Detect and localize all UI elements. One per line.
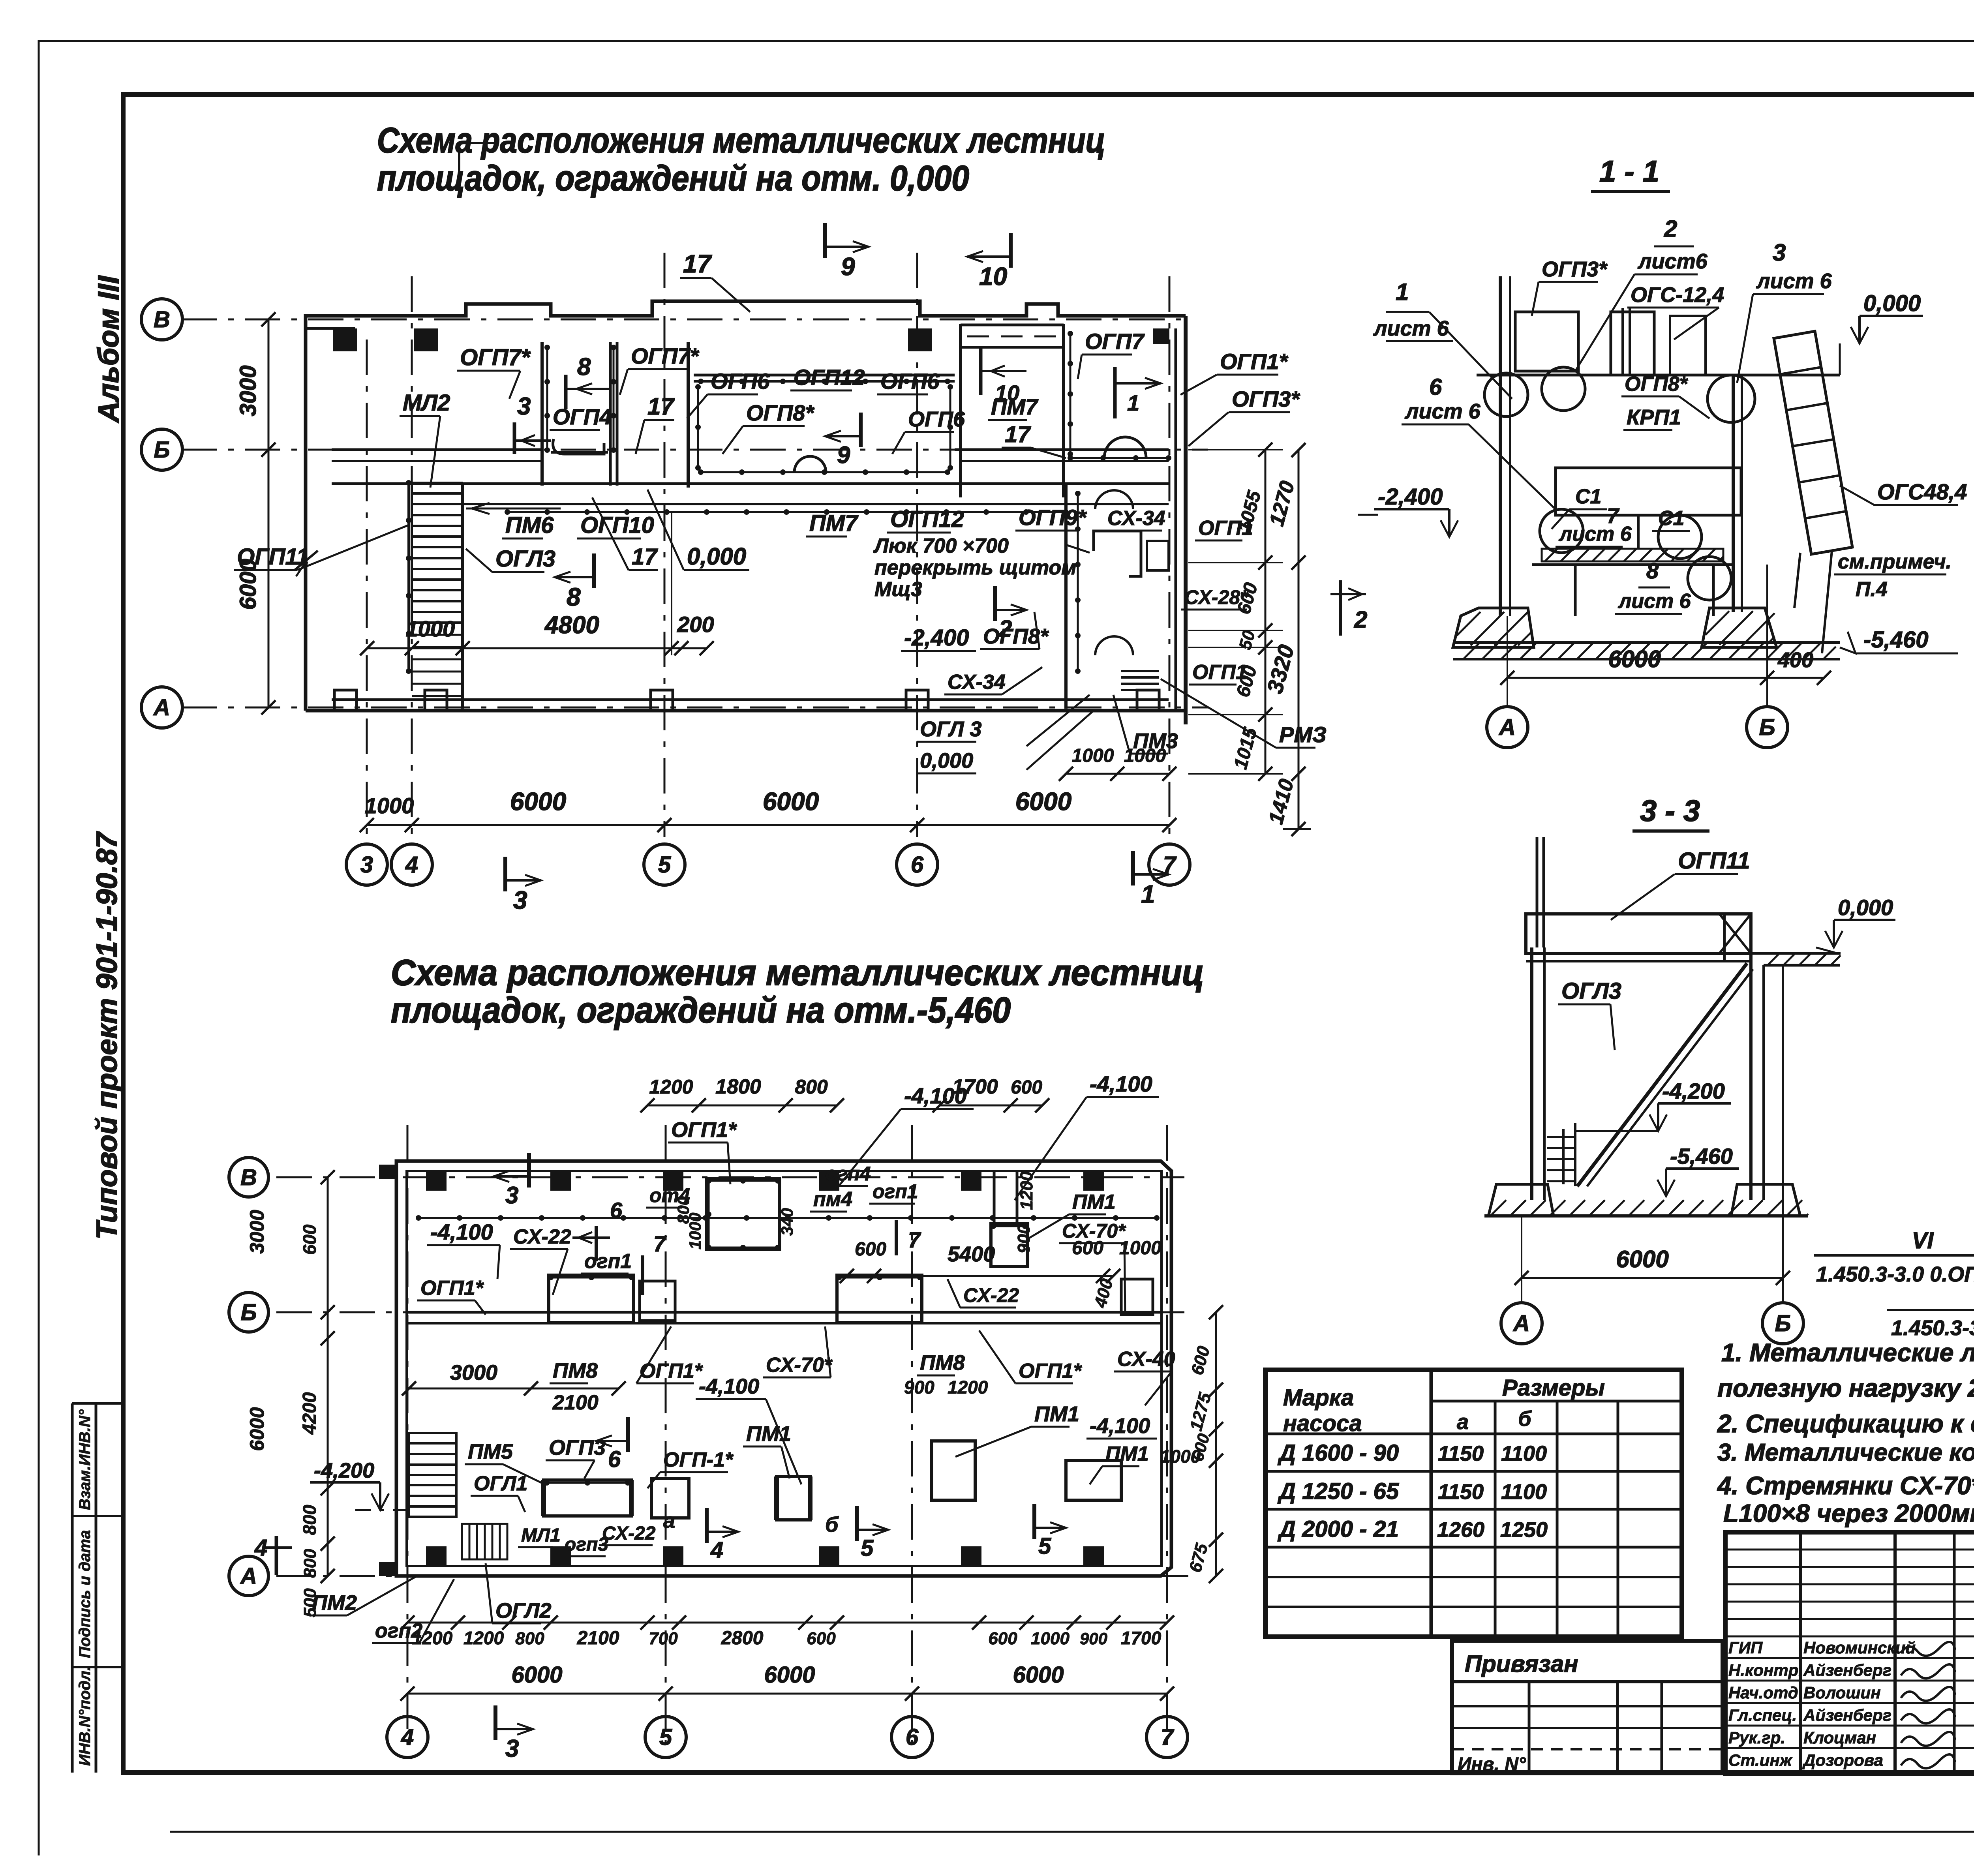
svg-text:КРП1: КРП1 (1627, 405, 1681, 429)
svg-text:Альбом III: Альбом III (92, 275, 125, 423)
svg-text:5: 5 (658, 852, 671, 878)
bottom plan dim 5400 chain (847, 1275, 1113, 1277)
svg-text:Клоцман: Клоцман (1803, 1728, 1876, 1747)
svg-text:-2,400: -2,400 (904, 625, 969, 651)
top plan partition x=2700 lower (1064, 484, 1068, 709)
section mark 1 bottom (1131, 851, 1135, 885)
svg-text:Размеры: Размеры (1502, 1375, 1605, 1401)
svg-text:огп1: огп1 (873, 1180, 918, 1203)
top plan room ПМ7 walls (959, 324, 962, 497)
title block main frame (1725, 1532, 1974, 1773)
bottom plan outline (396, 1161, 1171, 1576)
svg-text:-5,460: -5,460 (1863, 627, 1928, 653)
svg-text:2800: 2800 (721, 1628, 764, 1649)
svg-text:б: б (1518, 1407, 1532, 1431)
svg-text:-4,100: -4,100 (904, 1083, 967, 1108)
svg-text:ОГП11: ОГП11 (237, 544, 309, 570)
top plan dim 1000-4800-200 line (367, 647, 707, 649)
top plan wall break mark left (294, 551, 318, 570)
svg-text:1000: 1000 (1072, 745, 1114, 766)
svg-text:2100: 2100 (577, 1628, 619, 1649)
section 3-3 right wall (1749, 953, 1753, 1200)
bottom plan dim top chain b (940, 1105, 1042, 1107)
svg-text:ОГП7*: ОГП7* (460, 345, 531, 370)
top plan bottom small dims 1000 1000 (1066, 773, 1169, 775)
svg-text:17: 17 (647, 393, 675, 420)
svg-text:б: б (825, 1513, 839, 1536)
bottom plan grid col 7 (1166, 1125, 1168, 1745)
title block left verticals (1799, 1532, 1802, 1773)
section 3-3 stair rail small (1562, 1129, 1565, 1184)
svg-text:ОГП1: ОГП1 (1198, 517, 1253, 540)
top plan right room arc door 2 (1095, 490, 1133, 509)
section flag 1 in right room (1113, 367, 1117, 418)
bottom plan platform ПМ1 mid (777, 1476, 810, 1520)
svg-text:ОГП10: ОГП10 (580, 512, 654, 538)
svg-text:900: 900 (1080, 1629, 1107, 1648)
svg-text:6: 6 (906, 1724, 919, 1750)
svg-text:ПМ6: ПМ6 (505, 512, 554, 538)
section mark 3 bottom of bottom plan (493, 1705, 497, 1740)
bottom plan grid row А (276, 1575, 1188, 1577)
svg-text:насоса: насоса (1283, 1411, 1362, 1436)
section 1-1 detail circles (1484, 373, 1528, 416)
svg-text:6000: 6000 (246, 1407, 268, 1451)
svg-text:200: 200 (677, 612, 714, 637)
svg-text:лист 6: лист 6 (1756, 269, 1832, 293)
svg-text:600: 600 (299, 1224, 320, 1255)
section mark 2 plan (993, 586, 997, 621)
svg-text:СХ-70*: СХ-70* (766, 1354, 833, 1377)
section 1-1 posts under platform (1574, 565, 1577, 616)
bottom plan grid col 6 (911, 1125, 913, 1745)
svg-text:СХ-34: СХ-34 (948, 671, 1006, 694)
svg-text:700: 700 (649, 1629, 678, 1648)
svg-text:В: В (154, 307, 170, 332)
svg-text:1000: 1000 (686, 1213, 704, 1249)
section 3-3 top beam (1526, 914, 1751, 953)
svg-text:1700: 1700 (1121, 1628, 1162, 1648)
svg-text:1100: 1100 (1501, 1480, 1547, 1504)
svg-text:6000: 6000 (1608, 646, 1661, 672)
svg-text:-4,100: -4,100 (430, 1219, 493, 1244)
svg-text:4: 4 (401, 1724, 414, 1750)
pump table verticals (1430, 1370, 1433, 1637)
svg-text:1200: 1200 (412, 1628, 453, 1648)
svg-text:Привязан: Привязан (1465, 1651, 1578, 1677)
title block привязан box (1452, 1641, 1723, 1773)
svg-text:1200: 1200 (948, 1377, 988, 1398)
bottom plan platform ПМ4 area (707, 1178, 780, 1249)
svg-text:ОГП7: ОГП7 (1085, 329, 1145, 354)
section 1-1 beam КРП1 (1556, 468, 1741, 515)
section 3-3 foundation right (1731, 1184, 1800, 1216)
svg-text:500: 500 (300, 1588, 320, 1617)
section 3-3 ground hatch (1484, 1214, 1808, 1218)
svg-text:4200: 4200 (299, 1392, 320, 1435)
svg-text:7: 7 (908, 1227, 921, 1252)
svg-text:7: 7 (653, 1231, 667, 1256)
section mark 4 left (275, 1536, 278, 1575)
svg-text:1000: 1000 (1119, 1238, 1162, 1259)
bottom plan platform ПМ8-2 (837, 1275, 922, 1323)
svg-text:5: 5 (1038, 1533, 1051, 1559)
svg-text:3. Металлические конструкции: 3. Металлические конструкции со знаком*о… (1717, 1439, 1974, 1466)
section 3-3 right floor stub (1764, 964, 1840, 967)
pump table frame (1265, 1370, 1682, 1637)
section 3-3 small steps (1547, 1136, 1575, 1138)
bottom plan dim 3000 row (409, 1388, 619, 1390)
top plan right dim chain outer (1298, 450, 1300, 829)
svg-text:Подпись и дата: Подпись и дата (76, 1530, 94, 1658)
svg-text:600: 600 (988, 1629, 1017, 1648)
svg-text:ПМ8: ПМ8 (553, 1359, 598, 1383)
top plan second shaft right wall (687, 342, 690, 488)
section 3-3 left wall (1530, 947, 1533, 1200)
svg-text:А: А (1498, 715, 1516, 740)
svg-text:VI: VI (1912, 1228, 1935, 1253)
top plan outer wall top (306, 301, 1186, 328)
svg-text:Дозорова: Дозорова (1802, 1751, 1883, 1769)
svg-text:3: 3 (517, 393, 531, 420)
svg-text:ОГП6: ОГП6 (711, 369, 770, 394)
top plan grid row А (182, 707, 1208, 709)
svg-text:1200: 1200 (1017, 1171, 1036, 1210)
svg-text:Инв. N°: Инв. N° (1458, 1754, 1526, 1775)
svg-text:400: 400 (1777, 648, 1813, 672)
svg-text:10: 10 (979, 262, 1007, 291)
svg-text:Гл.спец.: Гл.спец. (1728, 1706, 1797, 1724)
svg-text:ОГП1*: ОГП1* (1019, 1360, 1083, 1383)
svg-text:ОГП7*: ОГП7* (631, 343, 699, 368)
section 1-1 left wall (1499, 276, 1502, 616)
svg-text:Б: Б (240, 1300, 257, 1325)
svg-text:17: 17 (683, 250, 713, 278)
top plan grid row Б (182, 449, 1208, 451)
top plan shaft room right wall (609, 342, 612, 486)
svg-text:6000: 6000 (1013, 1662, 1064, 1688)
top plan railing with dots below Б (507, 511, 1066, 513)
svg-text:ПМ7: ПМ7 (991, 394, 1039, 419)
top plan grid col 6 (916, 253, 918, 837)
section 1-1 bubble Б (1747, 707, 1788, 748)
svg-text:СХ-28*: СХ-28* (1184, 586, 1249, 608)
svg-text:8: 8 (577, 353, 591, 381)
svg-text:пм4: пм4 (813, 1188, 852, 1211)
bottom plan right dim chain (1215, 1312, 1217, 1576)
svg-text:17: 17 (1005, 422, 1031, 447)
left margin column lines (71, 1403, 74, 1773)
bottom plan wall band Б (407, 1311, 1162, 1314)
svg-text:ОГП12: ОГП12 (794, 365, 865, 390)
svg-text:ОГЛ2: ОГЛ2 (495, 1599, 552, 1623)
svg-text:Б: Б (154, 437, 170, 463)
svg-text:6000: 6000 (510, 787, 566, 816)
top plan shaft room left wall (540, 342, 544, 486)
title block signatures (1901, 1642, 1955, 1656)
top plan shaft bowl ОГП4 platform (553, 439, 604, 454)
svg-text:Д 1600 - 90: Д 1600 - 90 (1277, 1440, 1399, 1466)
svg-text:-2,400: -2,400 (1378, 484, 1443, 510)
svg-text:6000: 6000 (511, 1662, 562, 1688)
svg-text:-4,200: -4,200 (314, 1459, 374, 1482)
svg-text:см.примеч.: см.примеч. (1838, 550, 1951, 573)
top plan grid col 7 (1169, 276, 1171, 837)
svg-text:2. Спецификацию к схемам и сеч: 2. Спецификацию к схемам и сечения 5-5; … (1717, 1409, 1974, 1438)
section flag 10 in ПМ7 room (979, 347, 983, 395)
svg-text:ПМ1: ПМ1 (1105, 1443, 1149, 1465)
top plan left dim 3000 6000 (268, 319, 270, 707)
section mark 9 top (823, 223, 827, 258)
svg-text:ОГП9*: ОГП9* (1019, 505, 1087, 530)
bottom plan platform mid a (651, 1478, 689, 1518)
svg-text:В: В (240, 1165, 257, 1190)
title block left thin rows (1725, 1549, 1974, 1551)
section 1-1 bubble А (1487, 707, 1528, 748)
svg-text:ОГП1*: ОГП1* (1220, 349, 1288, 374)
svg-text:3000: 3000 (246, 1210, 268, 1253)
svg-text:0,000: 0,000 (1838, 895, 1893, 920)
svg-text:6: 6 (608, 1446, 621, 1472)
top plan grid col 3 (366, 340, 368, 837)
svg-text:площадок, ограждений на отм.: площадок, ограждений на отм.-5,460 (391, 990, 1011, 1030)
svg-text:площадок, ограждений на отм.: площадок, ограждений на отм. 0,000 (377, 159, 969, 198)
svg-text:1800: 1800 (715, 1075, 761, 1098)
svg-text:СХ-22: СХ-22 (602, 1523, 656, 1544)
top plan semicircle door at platform (794, 456, 826, 472)
svg-text:СХ-22: СХ-22 (513, 1225, 571, 1248)
svg-text:Мщ3: Мщ3 (874, 578, 922, 601)
svg-text:ПМ1: ПМ1 (1072, 1191, 1116, 1214)
section 1-1 diagonal ОГС48.4 (1774, 331, 1852, 554)
svg-text:4: 4 (405, 852, 418, 878)
svg-text:ОГЛ3: ОГЛ3 (495, 546, 555, 572)
svg-text:-4,100: -4,100 (1090, 1071, 1152, 1096)
svg-text:1000: 1000 (1160, 1446, 1201, 1467)
svg-text:900: 900 (1014, 1224, 1034, 1253)
svg-text:800: 800 (299, 1505, 320, 1535)
section mark 3 left (513, 422, 516, 454)
svg-text:6000: 6000 (1616, 1246, 1668, 1272)
bottom plan platform СХ area right (1121, 1279, 1153, 1315)
svg-text:огп1: огп1 (584, 1250, 632, 1273)
svg-text:перекрыть щитом: перекрыть щитом (874, 556, 1077, 579)
svg-text:1260: 1260 (1437, 1518, 1484, 1542)
bottom plan outline inner (407, 1171, 1162, 1566)
svg-text:Волошин: Волошин (1803, 1683, 1881, 1702)
bottom plan dim top chain a (699, 1105, 837, 1107)
svg-text:8: 8 (567, 583, 581, 611)
top plan grid row В (182, 319, 1184, 321)
top plan РМЗ hatch lines (1121, 670, 1159, 672)
svg-text:1000: 1000 (406, 616, 455, 641)
svg-text:ОГП3: ОГП3 (549, 1436, 606, 1460)
top plan wall row Б band (332, 448, 542, 451)
top plan outer wall right (1184, 316, 1188, 724)
svg-text:СХ-40: СХ-40 (1117, 1348, 1175, 1371)
svg-text:3000: 3000 (235, 365, 261, 416)
top plan stair МЛ2 flight (412, 483, 462, 623)
svg-text:900: 900 (904, 1377, 934, 1398)
svg-text:2: 2 (1664, 216, 1677, 242)
svg-text:6000: 6000 (763, 787, 819, 816)
svg-text:Нач.отд: Нач.отд (1728, 1683, 1798, 1702)
svg-text:3: 3 (360, 852, 373, 878)
svg-text:6: 6 (610, 1198, 623, 1223)
svg-text:8: 8 (1646, 558, 1659, 583)
svg-text:-4,200: -4,200 (1662, 1079, 1725, 1103)
top plan platform edge below Б (332, 482, 1169, 485)
top plan big platform ОГП6-ОГП12 (694, 374, 955, 377)
svg-text:ОГП6: ОГП6 (880, 369, 940, 394)
svg-text:С1: С1 (1658, 507, 1684, 530)
svg-text:1.450.3-3.0 0.ОП3 Л.10: 1.450.3-3.0 0.ОП3 Л.10 (1891, 1316, 1974, 1340)
svg-text:МЛ2: МЛ2 (403, 390, 450, 416)
section 1-1 left parapet (1515, 312, 1578, 371)
top plan stair rail (407, 483, 410, 671)
svg-text:ОГЛ 3: ОГЛ 3 (920, 717, 982, 741)
svg-text:9: 9 (837, 442, 850, 468)
svg-text:ПМ3: ПМ3 (1133, 729, 1178, 753)
svg-text:4: 4 (254, 1535, 267, 1561)
section 1-1 mid parapet (1611, 312, 1654, 375)
svg-text:ОГП4: ОГП4 (553, 404, 612, 429)
svg-text:ОГЛ1: ОГЛ1 (474, 1472, 527, 1495)
pump table horizontals (1431, 1400, 1682, 1403)
svg-text:L100×8 через 2000мм от верх: L100×8 через 2000мм от верха. (1723, 1499, 1974, 1527)
svg-text:Д 1250 - 65: Д 1250 - 65 (1277, 1478, 1399, 1504)
svg-text:-4,100: -4,100 (1090, 1414, 1150, 1438)
svg-text:Типовой проект 901-1-90.87: Типовой проект 901-1-90.87 (90, 831, 123, 1240)
section mark 8 upper (564, 375, 568, 409)
svg-text:3: 3 (513, 886, 527, 914)
svg-text:1200: 1200 (463, 1628, 504, 1648)
svg-text:ОГС48,4: ОГС48,4 (1877, 479, 1967, 504)
svg-text:СХ-34: СХ-34 (1107, 507, 1165, 530)
svg-text:1: 1 (1396, 279, 1409, 305)
svg-text:ОГП-1*: ОГП-1* (663, 1448, 734, 1471)
section 1-1 platform -2400 hatch (1542, 549, 1723, 561)
title block привязан grid (1528, 1683, 1531, 1773)
svg-text:6000: 6000 (1015, 787, 1071, 816)
top plan lower right railing (1077, 493, 1079, 671)
section 1-1 right wall (1732, 375, 1735, 612)
svg-text:А: А (153, 695, 170, 720)
title block name rows (1725, 1657, 1974, 1659)
svg-text:Б: Б (1775, 1311, 1791, 1336)
svg-text:1100: 1100 (1501, 1442, 1547, 1465)
bottom plan bottom dim chain 2 (407, 1693, 1167, 1695)
bottom plan grid col 4 (407, 1125, 409, 1745)
top plan right room arc door 3 (1095, 636, 1133, 655)
section 1-1 dim 6000-400 (1507, 677, 1824, 679)
section mark 2 left of 1-1 (1339, 580, 1342, 636)
top plan col bubbles (346, 844, 387, 885)
svg-text:ОГП1*: ОГП1* (671, 1118, 737, 1142)
svg-text:Схема расположения металличес: Схема расположения металлических лестниц (391, 953, 1204, 993)
section 3-3 foundation left (1488, 1184, 1554, 1216)
bottom plan platform ПМ1 right (932, 1441, 975, 1500)
svg-text:ПМ7: ПМ7 (809, 510, 859, 536)
svg-text:3: 3 (505, 1735, 519, 1762)
svg-text:1150: 1150 (1438, 1480, 1484, 1504)
svg-text:ОГП3*: ОГП3* (1542, 257, 1608, 281)
svg-text:ОГП11: ОГП11 (1678, 848, 1750, 874)
svg-text:огп3: огп3 (565, 1534, 608, 1555)
svg-text:1000: 1000 (1031, 1629, 1070, 1648)
bottom plan platform ОГП1 small (640, 1281, 675, 1321)
section 1-1 floor level line (1477, 374, 1840, 377)
svg-text:ОГП3*: ОГП3* (1232, 386, 1300, 411)
section mark 8 lower (592, 553, 596, 588)
bottom plan shaft to ПМ1 top (993, 1171, 996, 1224)
top plan bottom dim chain (367, 824, 1169, 826)
bottom plan platform ПМ8-1 (549, 1275, 634, 1323)
svg-text:ПМ1: ПМ1 (1034, 1402, 1079, 1426)
svg-text:0,000: 0,000 (920, 749, 973, 773)
svg-text:а: а (1457, 1410, 1469, 1434)
svg-text:лист6: лист6 (1637, 250, 1708, 273)
svg-text:600: 600 (807, 1629, 836, 1648)
top plan grid col 5 (664, 253, 666, 837)
svg-text:МЛ1: МЛ1 (521, 1525, 561, 1546)
svg-text:9: 9 (841, 252, 855, 281)
svg-text:Новоминский: Новоминский (1803, 1638, 1916, 1657)
svg-text:ОГЛ3: ОГЛ3 (1561, 978, 1621, 1004)
section mark 10 top (1009, 233, 1013, 268)
section 1-1 foundation left (1453, 608, 1534, 647)
svg-text:П.4: П.4 (1856, 578, 1888, 601)
svg-text:1: 1 (1141, 880, 1155, 908)
svg-text:6: 6 (1429, 374, 1442, 400)
bottom plan left dim chain (327, 1177, 329, 1576)
top plan stair МЛ2 lower flight (412, 622, 462, 624)
svg-text:4. Стремянки СХ-70*крепить к п: 4. Стремянки СХ-70*крепить к перегородке… (1717, 1471, 1974, 1500)
corner mark near title (459, 143, 497, 180)
bottom plan platform ПМ5 (544, 1480, 631, 1516)
bottom plan col bubbles (387, 1717, 428, 1758)
svg-text:17: 17 (632, 544, 658, 570)
svg-text:800: 800 (795, 1076, 828, 1098)
svg-text:Б: Б (1759, 715, 1775, 740)
svg-text:С1: С1 (1575, 485, 1601, 508)
svg-text:1.450.3-3.0 0.ОП3 Л.14: 1.450.3-3.0 0.ОП3 Л.14 (1816, 1263, 1974, 1286)
svg-text:ОГП8*: ОГП8* (746, 400, 814, 425)
section 1-1 right parapet (1670, 316, 1706, 375)
top plan right room door arc (1104, 437, 1146, 458)
top plan column stubs row В (333, 328, 357, 351)
bottom plan stair left lower (462, 1524, 507, 1559)
svg-text:2: 2 (1354, 606, 1367, 633)
svg-text:1200: 1200 (649, 1076, 693, 1098)
svg-text:ПМ8: ПМ8 (920, 1351, 965, 1375)
svg-text:3 - 3: 3 - 3 (1640, 794, 1700, 828)
svg-text:Рук.гр.: Рук.гр. (1728, 1728, 1785, 1747)
section 1-1 ground hatch (1461, 643, 1836, 659)
svg-text:340: 340 (778, 1208, 796, 1236)
bottom plan platform ПМ1 top right (991, 1224, 1027, 1266)
svg-text:Айзенберг: Айзенберг (1803, 1661, 1891, 1679)
bottom plan column stubs bottom (426, 1546, 447, 1566)
svg-text:800: 800 (300, 1549, 320, 1578)
svg-text:ОГП1: ОГП1 (1192, 661, 1247, 684)
svg-text:5: 5 (861, 1535, 874, 1561)
svg-text:3000: 3000 (450, 1361, 497, 1384)
svg-text:3: 3 (1773, 239, 1786, 266)
svg-text:800: 800 (515, 1629, 544, 1648)
svg-text:600: 600 (855, 1239, 886, 1260)
svg-text:2100: 2100 (552, 1391, 599, 1414)
